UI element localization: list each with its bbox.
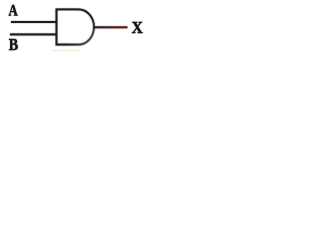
blurred halo underlay	[9, 3, 144, 54]
scan ghost under gate	[51, 50, 81, 52]
crisp strokes	[9, 3, 144, 54]
